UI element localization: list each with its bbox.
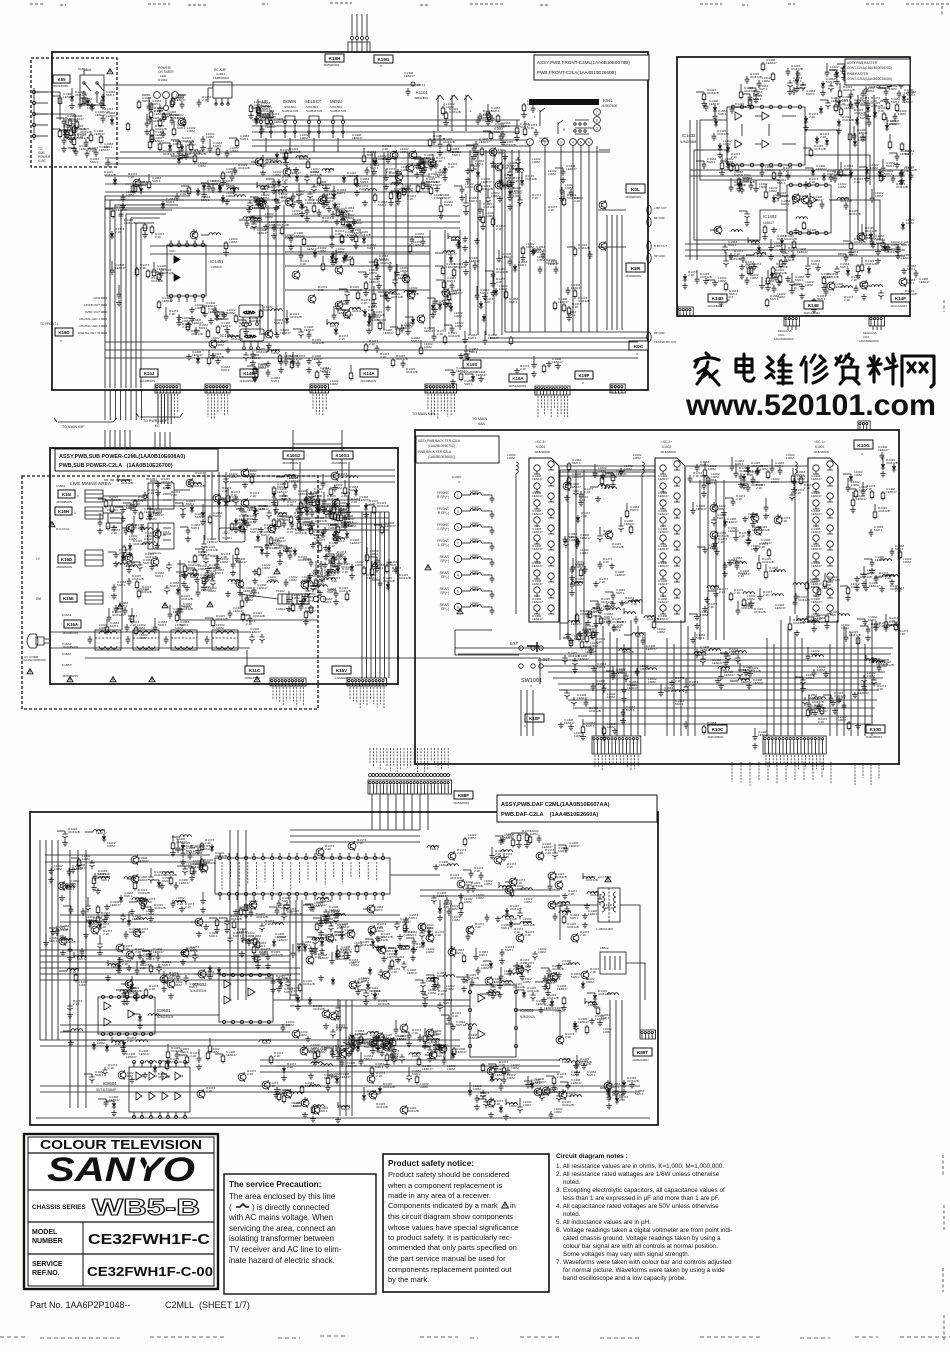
diode xyxy=(201,510,205,518)
capacitor xyxy=(132,522,137,530)
wire xyxy=(490,337,648,339)
svg-text:CE32FWH1F-C: CE32FWH1F-C xyxy=(88,1232,211,1248)
diode xyxy=(242,518,246,526)
wire xyxy=(285,265,430,267)
ground xyxy=(593,630,599,636)
inductor xyxy=(333,538,344,540)
ground xyxy=(865,114,871,120)
wire xyxy=(299,462,301,520)
wire xyxy=(164,432,166,448)
capacitor xyxy=(460,186,465,194)
resistor xyxy=(249,104,253,114)
ground xyxy=(800,686,806,692)
ground xyxy=(474,238,480,244)
capacitor xyxy=(213,307,218,315)
ground xyxy=(712,541,718,547)
resistor xyxy=(573,289,577,299)
resistor xyxy=(137,100,141,110)
svg-text:K16BP: K16BP xyxy=(62,663,72,667)
wire xyxy=(285,289,430,291)
capacitor xyxy=(182,119,187,127)
jack xyxy=(534,605,540,611)
transistor xyxy=(792,193,800,203)
capacitor xyxy=(322,498,327,506)
jack xyxy=(674,573,680,579)
resistor xyxy=(886,101,890,111)
resistor xyxy=(629,525,633,535)
PWB FRONT block outline xyxy=(52,52,648,390)
transistor xyxy=(383,1040,391,1050)
wire xyxy=(588,146,590,332)
capacitor xyxy=(739,473,744,481)
ground xyxy=(854,576,860,582)
ground xyxy=(782,259,788,265)
capacitor xyxy=(307,523,312,532)
capacitor xyxy=(755,468,760,476)
capacitor xyxy=(713,113,718,121)
ground xyxy=(208,318,214,324)
inductor xyxy=(645,668,656,670)
capacitor xyxy=(806,653,811,661)
svg-text:6. Voltage readings taken a di: 6. Voltage readings taken a digital volt… xyxy=(556,1227,732,1234)
capacitor xyxy=(478,113,483,121)
diode xyxy=(867,266,871,274)
transistor xyxy=(383,1042,391,1052)
svg-text:K19H: K19H xyxy=(329,56,341,61)
capacitor xyxy=(392,277,397,286)
capacitor xyxy=(127,578,132,586)
resistor xyxy=(392,1038,396,1048)
svg-text:J10CA200N: J10CA200N xyxy=(803,311,820,315)
inductor xyxy=(709,649,720,651)
diode xyxy=(438,906,442,914)
capacitor xyxy=(794,593,799,601)
jack xyxy=(813,587,819,593)
resistor xyxy=(567,462,571,472)
resistor xyxy=(257,567,261,577)
capacitor xyxy=(683,684,688,693)
capacitor xyxy=(62,118,67,126)
ground xyxy=(861,684,867,690)
resistor xyxy=(861,74,865,84)
diode xyxy=(573,1021,577,1029)
wire xyxy=(259,205,261,335)
capacitor xyxy=(447,908,452,916)
ground xyxy=(310,1116,316,1122)
capacitor xyxy=(99,100,104,108)
diode xyxy=(346,501,350,509)
diode xyxy=(272,491,276,499)
jack xyxy=(674,477,680,483)
ground xyxy=(446,301,452,307)
ground xyxy=(325,1085,331,1091)
jack xyxy=(813,605,819,611)
ground xyxy=(255,963,261,969)
wire xyxy=(559,470,561,640)
svg-text:MENU: MENU xyxy=(330,99,342,104)
capacitor xyxy=(434,161,439,169)
capacitor xyxy=(597,533,602,542)
ground xyxy=(64,883,70,889)
ground xyxy=(363,512,369,518)
capacitor xyxy=(159,270,164,278)
transistor xyxy=(258,200,266,210)
capacitor xyxy=(711,517,716,526)
capacitor xyxy=(890,548,895,556)
scan marks right edge xyxy=(942,6,944,1340)
wire xyxy=(150,253,430,255)
resistor xyxy=(332,505,336,515)
wire xyxy=(379,512,381,678)
svg-text:in: in xyxy=(510,1201,516,1210)
capacitor xyxy=(635,668,640,676)
ground xyxy=(241,527,247,533)
ground xyxy=(71,146,77,152)
capacitor xyxy=(305,588,310,597)
wire xyxy=(167,394,169,424)
wire xyxy=(283,205,285,335)
resistor xyxy=(306,160,310,170)
resistor xyxy=(72,125,76,135)
capacitor xyxy=(874,621,879,629)
wire xyxy=(348,462,350,520)
capacitor xyxy=(789,279,794,288)
resistor xyxy=(872,76,876,86)
svg-text:K65: K65 xyxy=(57,77,66,82)
svg-text:J2B91B01: J2B91B01 xyxy=(414,96,429,100)
resistor xyxy=(152,268,156,278)
resistor xyxy=(470,163,474,173)
transistor xyxy=(58,881,66,891)
ground xyxy=(812,710,818,716)
wire xyxy=(252,139,530,141)
wire xyxy=(250,221,460,223)
capacitor xyxy=(211,185,216,193)
capacitor xyxy=(869,529,874,537)
connector K19G xyxy=(374,55,393,63)
ground xyxy=(763,513,769,519)
inductor xyxy=(443,251,454,253)
capacitor xyxy=(736,607,741,615)
ground xyxy=(67,955,73,961)
transistor xyxy=(347,929,355,939)
resistor xyxy=(362,154,366,164)
jack xyxy=(813,500,819,506)
ground xyxy=(248,113,254,119)
ground xyxy=(621,687,627,693)
ground xyxy=(379,1050,385,1056)
inductor xyxy=(124,877,135,879)
wire xyxy=(105,357,638,359)
diode xyxy=(342,255,346,263)
transistor xyxy=(395,172,403,182)
transistor Q1471 xyxy=(599,200,607,210)
resistor xyxy=(846,586,850,596)
ground xyxy=(181,581,187,587)
resistor xyxy=(326,1076,330,1086)
capacitor xyxy=(400,325,405,333)
svg-text:J10B1050N: J10B1050N xyxy=(244,676,260,680)
bottom pin headers xyxy=(155,384,180,393)
wire xyxy=(375,512,377,678)
ground xyxy=(246,207,252,213)
inductor xyxy=(583,877,594,879)
svg-text:J10C2050N: J10C2050N xyxy=(707,735,723,739)
resistor xyxy=(235,547,239,557)
capacitor xyxy=(684,721,689,729)
ground xyxy=(343,1046,349,1052)
svg-text:2. All resistance rated wattag: 2. All resistance rated wattages are 1/6… xyxy=(556,1171,720,1178)
ground xyxy=(895,253,901,259)
jack xyxy=(813,535,819,541)
ground xyxy=(901,268,907,274)
svg-text:Circuit diagram notes :: Circuit diagram notes : xyxy=(556,1153,628,1160)
ground xyxy=(102,917,108,923)
ground xyxy=(260,170,266,176)
ground xyxy=(202,311,208,317)
ground xyxy=(266,343,272,349)
capacitor xyxy=(472,145,477,153)
resistor xyxy=(417,1057,421,1067)
wire xyxy=(105,175,430,177)
transistor xyxy=(407,290,415,300)
op-amps xyxy=(735,112,742,120)
wire xyxy=(361,14,363,30)
diode xyxy=(343,556,347,564)
svg-text:cated chassis ground. Voltage: cated chassis ground. Voltage readings t… xyxy=(556,1235,721,1242)
diode xyxy=(837,99,841,107)
wire xyxy=(370,512,372,678)
ground xyxy=(437,150,443,156)
ground xyxy=(142,232,148,238)
terminal R SP(-) xyxy=(437,507,449,515)
capacitor xyxy=(178,606,183,614)
resistor xyxy=(481,215,485,225)
capacitor xyxy=(793,599,798,607)
inductor xyxy=(512,169,523,171)
capacitor xyxy=(278,550,283,558)
ground xyxy=(861,581,867,587)
capacitor xyxy=(62,137,67,145)
svg-text:DIGITAL LED 2: DIGITAL LED 2 xyxy=(79,324,100,328)
wire xyxy=(121,523,123,630)
ground xyxy=(273,205,279,211)
capacitor xyxy=(746,484,751,492)
svg-text:J10A0B00N: J10A0B00N xyxy=(707,304,724,308)
capacitor xyxy=(291,358,296,366)
ground xyxy=(127,552,133,558)
capacitor xyxy=(390,1052,395,1060)
capacitor xyxy=(101,115,106,123)
ground xyxy=(286,606,292,612)
ground xyxy=(194,577,200,583)
jack xyxy=(674,461,680,467)
connector K0C xyxy=(629,341,648,350)
ground xyxy=(299,211,305,217)
capacitor xyxy=(302,596,307,604)
inductor xyxy=(841,286,852,288)
capacitor xyxy=(328,923,333,932)
ground xyxy=(324,372,330,378)
svg-text:X: X xyxy=(458,480,460,484)
resistor xyxy=(748,98,752,108)
wire xyxy=(518,150,520,332)
wire xyxy=(356,14,358,30)
diode xyxy=(333,202,337,210)
resistor xyxy=(187,186,191,196)
diode xyxy=(825,138,829,146)
capacitor xyxy=(298,524,303,532)
svg-text:6: 6 xyxy=(457,590,459,594)
capacitor xyxy=(817,703,822,711)
diode xyxy=(901,222,905,230)
capacitor xyxy=(427,1047,432,1056)
svg-text:K0L: K0L xyxy=(631,187,640,193)
diode xyxy=(161,201,165,209)
capacitor xyxy=(335,303,340,312)
capacitor xyxy=(245,520,250,528)
svg-text:PWB,BACK TER-C2LA: PWB,BACK TER-C2LA xyxy=(418,450,452,454)
svg-text:L: L xyxy=(534,115,536,119)
capacitor xyxy=(786,172,791,180)
resistor xyxy=(702,92,706,102)
svg-text:K16V: K16V xyxy=(336,668,348,673)
resistor xyxy=(380,525,384,535)
resistor xyxy=(216,147,220,157)
ground xyxy=(155,490,161,496)
inductor xyxy=(502,916,513,918)
svg-text:K16AF: K16AF xyxy=(62,652,72,656)
jack xyxy=(827,525,833,531)
coil L8812 xyxy=(600,952,626,974)
ground xyxy=(310,542,316,548)
wire xyxy=(267,205,269,335)
wire xyxy=(388,512,390,678)
ground xyxy=(50,929,56,935)
resistor xyxy=(284,480,288,490)
capacitor xyxy=(252,587,257,595)
wire xyxy=(150,245,430,247)
resistor xyxy=(888,140,892,150)
wire xyxy=(290,841,420,843)
capacitor xyxy=(120,913,125,922)
ground xyxy=(224,199,230,205)
capacitor xyxy=(825,69,830,77)
inductor xyxy=(324,578,335,580)
transistor xyxy=(505,885,513,895)
wire xyxy=(164,394,166,424)
svg-text:LA6517: LA6517 xyxy=(763,221,774,225)
transistor xyxy=(153,529,161,539)
ground xyxy=(278,367,284,373)
degauss connectors xyxy=(784,316,800,326)
svg-text:K16E: K16E xyxy=(63,596,74,601)
capacitor xyxy=(245,220,250,228)
capacitor xyxy=(770,465,775,473)
capacitor xyxy=(304,496,309,504)
ground xyxy=(433,864,439,870)
resistor xyxy=(596,1006,600,1016)
ground xyxy=(271,188,277,194)
ground xyxy=(265,361,271,367)
capacitor xyxy=(900,169,905,177)
ground xyxy=(391,1047,397,1053)
connector K16D xyxy=(58,555,75,563)
diode xyxy=(883,244,887,252)
resistor xyxy=(185,1055,189,1065)
svg-text:9VBC OUT: 9VBC OUT xyxy=(85,310,100,314)
transistors xyxy=(186,478,194,488)
diode xyxy=(352,1042,356,1050)
jack xyxy=(534,587,540,593)
wire xyxy=(876,326,878,330)
ground xyxy=(302,1112,308,1118)
capacitor xyxy=(899,73,904,81)
ground xyxy=(727,560,733,566)
capacitor xyxy=(296,360,301,368)
ground xyxy=(366,328,372,334)
diode xyxy=(411,317,415,325)
svg-text:J10D2B00N: J10D2B00N xyxy=(865,735,882,739)
ground xyxy=(753,546,759,552)
ground xyxy=(225,591,231,597)
inductor xyxy=(743,592,754,594)
diode xyxy=(255,116,259,124)
ground xyxy=(306,367,312,373)
resistor xyxy=(177,140,181,150)
transistor Q1454 xyxy=(335,300,343,310)
ground xyxy=(199,867,205,873)
resistor xyxy=(157,300,161,310)
wire xyxy=(292,430,294,451)
capacitor xyxy=(418,1034,423,1042)
capacitor xyxy=(339,507,344,515)
wire xyxy=(252,131,520,133)
svg-text:REF.NO.: REF.NO. xyxy=(32,1270,60,1277)
diode xyxy=(362,236,366,244)
diode xyxy=(873,110,877,118)
transistors xyxy=(316,847,324,857)
resistor xyxy=(602,726,606,736)
inductor xyxy=(812,655,823,657)
resistor xyxy=(441,266,445,276)
inductor xyxy=(465,1024,476,1026)
wire xyxy=(157,394,159,424)
capacitor xyxy=(874,575,879,583)
wire xyxy=(707,480,709,640)
resistor xyxy=(737,177,741,187)
svg-text:J10CA200N: J10CA200N xyxy=(890,304,907,308)
resistor xyxy=(889,71,893,81)
ground xyxy=(111,525,117,531)
AC cord plug xyxy=(27,634,49,648)
connector K14D xyxy=(708,294,727,302)
wire xyxy=(337,138,339,152)
svg-text:1: 1 xyxy=(457,494,459,498)
svg-text:SP(-): SP(-) xyxy=(441,575,449,579)
wire xyxy=(85,657,540,659)
svg-text:CE32FWH1F-C-00: CE32FWH1F-C-00 xyxy=(87,1265,213,1279)
capacitor xyxy=(112,584,117,592)
capacitor xyxy=(861,488,866,496)
resistor xyxy=(898,550,902,560)
ground xyxy=(762,234,768,240)
ground xyxy=(288,244,294,250)
ground xyxy=(144,129,150,135)
capacitor xyxy=(480,1090,485,1099)
svg-text:UP: UP xyxy=(262,99,268,104)
diode xyxy=(148,951,152,959)
